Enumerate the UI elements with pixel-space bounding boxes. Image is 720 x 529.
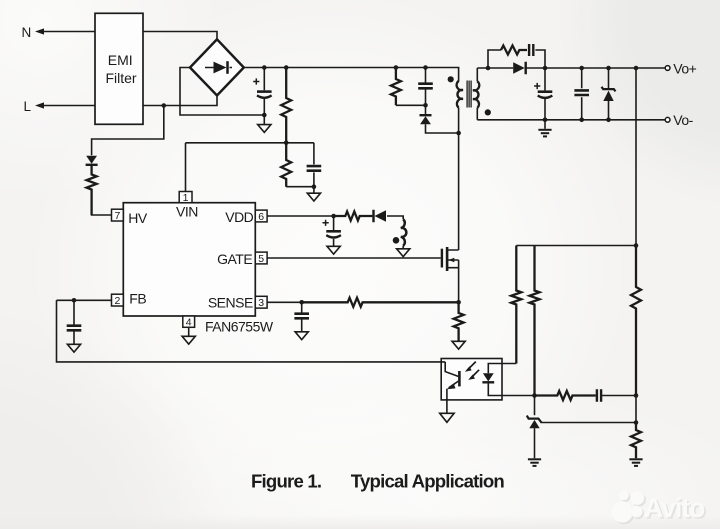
EMI filter block <box>95 13 143 124</box>
svg-text:Filter: Filter <box>105 70 136 86</box>
svg-text:HV: HV <box>128 210 148 226</box>
arrowhead N <box>35 28 44 34</box>
wire R8 to zener <box>534 396 536 416</box>
svg-text:FB: FB <box>129 291 146 307</box>
junction sense cap <box>299 300 304 305</box>
wire bulk cap bottom lead <box>263 99 265 125</box>
resistor R4 output snubber <box>501 46 527 55</box>
terminal Vo- <box>665 117 670 122</box>
capacitor C6 output filter <box>574 90 589 95</box>
wire sense cap bottom lead <box>301 319 303 332</box>
transformer T1 core <box>467 81 471 108</box>
ground below optocoupler <box>440 413 454 422</box>
wire output cap top lead <box>544 68 546 90</box>
junction VDD cap <box>331 214 336 219</box>
wire C2 top lead <box>313 143 315 165</box>
svg-text:4: 4 <box>186 316 192 328</box>
ground below R6 <box>629 458 642 460</box>
wire secondary top lead <box>476 68 478 81</box>
ground below R13 <box>452 341 465 349</box>
resistor R13 current sense <box>454 302 464 341</box>
junction output cap <box>543 66 548 71</box>
junction zener line to column <box>634 420 639 425</box>
svg-text:Figure 1.: Figure 1. <box>251 471 321 492</box>
pin 7 HV <box>112 209 124 221</box>
svg-text:Vo-: Vo- <box>673 112 693 128</box>
wire SENSE line <box>267 301 348 303</box>
resistor R12 sense series <box>302 298 459 307</box>
junction feedback divider <box>634 243 639 248</box>
wire L to EMI filter <box>43 105 95 107</box>
transformer T1 primary winding <box>457 81 463 108</box>
wire FB to optocoupler <box>57 300 446 362</box>
wire output snubber right leg <box>535 50 545 68</box>
wire zener top lead <box>608 68 610 88</box>
diode D2 clamp <box>420 116 431 124</box>
ground below auxiliary winding <box>397 249 410 257</box>
wire GATE line <box>267 257 441 259</box>
op-amp U1 FAN6755W body <box>123 203 255 316</box>
svg-text:L: L <box>24 99 32 114</box>
junction C6 bottom <box>579 118 584 123</box>
wire zener bottom lead <box>608 101 610 120</box>
wire FB cap bottom lead <box>73 331 75 345</box>
arrowhead L <box>35 102 44 108</box>
pin 5 GATE <box>255 252 267 264</box>
capacitor C3 clamp <box>418 84 433 89</box>
wire feedback column <box>635 68 637 246</box>
resistor R3 clamp <box>391 68 401 106</box>
ground below pin 4 <box>182 336 195 344</box>
wire VDD cap bottom lead <box>333 239 335 247</box>
wire output cap bottom lead <box>544 99 546 129</box>
optocoupler U2 body <box>441 359 502 400</box>
junction VIN node <box>284 141 289 146</box>
wire N to EMI filter <box>43 31 95 33</box>
wire MOSFET source <box>458 260 460 302</box>
capacitor C5 output bulk <box>538 90 553 93</box>
pin 4 GND <box>183 316 195 327</box>
junction C6 top <box>579 66 584 71</box>
wire FB cap top lead <box>73 300 75 325</box>
svg-text:5: 5 <box>258 253 264 265</box>
pin 2 FB <box>112 294 124 306</box>
svg-text:6: 6 <box>258 211 264 223</box>
resistor R11 VDD series <box>334 212 373 221</box>
svg-text:GATE: GATE <box>217 251 252 267</box>
svg-text:Avito: Avito <box>644 493 705 523</box>
svg-text:7: 7 <box>114 210 120 222</box>
bridge rectifier BR1 <box>190 39 244 95</box>
wire EMI to bridge top <box>143 32 217 41</box>
wire comp to column <box>602 395 636 397</box>
wire C2 bottom lead <box>313 172 315 186</box>
resistor R2 divider lower <box>281 143 291 187</box>
junction sense node <box>456 300 461 305</box>
svg-text:Vo+: Vo+ <box>673 60 696 76</box>
wire clamp C top lead <box>425 68 427 84</box>
junction FB cap <box>72 298 77 303</box>
pin 3 SENSE <box>255 296 267 308</box>
optocoupler U2 phototransistor <box>445 362 458 377</box>
junction ZD1 top <box>606 66 611 71</box>
wire feedback top link <box>516 245 636 247</box>
resistor R7 opto series <box>511 246 521 364</box>
junction snubber left <box>486 66 491 71</box>
capacitor C10 sense filter <box>294 314 309 319</box>
capacitor C2 VIN filter <box>307 166 322 171</box>
wire feedback column lower <box>635 396 637 423</box>
wire VIN to pin 1 <box>185 143 187 192</box>
transformer T1 secondary winding <box>473 81 479 108</box>
junction ZD1 bottom <box>606 118 611 123</box>
wire primary bottom lead <box>458 108 460 133</box>
polarity dot secondary <box>485 109 491 115</box>
wire secondary output line <box>477 67 513 69</box>
junction clamp diode <box>423 103 428 108</box>
ground below C10 <box>295 332 308 340</box>
optocoupler U2 light arrows <box>467 362 479 379</box>
wire C6 top lead <box>581 68 583 88</box>
wire HV tap <box>92 106 164 156</box>
junction feedback column top <box>634 66 639 71</box>
pin 1 VIN <box>179 192 192 203</box>
resistor R5 feedback column <box>631 246 641 396</box>
svg-text:EMI: EMI <box>108 52 133 68</box>
zener diode ZD2 reference <box>527 416 542 423</box>
zener diode ZD1 output clamp <box>602 87 616 92</box>
transistor Q1 MOSFET <box>441 249 443 268</box>
LED inside optocoupler U2 <box>483 373 494 381</box>
resistor R9 comp network <box>535 391 596 400</box>
wire zener ZD2 to column <box>541 422 637 424</box>
resistor R8 opto bias <box>530 246 540 396</box>
wire output snubber loop <box>488 50 501 68</box>
wire VDD line <box>267 215 345 217</box>
wire output line to Vo+ <box>526 67 666 69</box>
ground below C1 <box>258 125 271 133</box>
svg-text:2: 2 <box>114 295 120 307</box>
svg-text:Typical Application: Typical Application <box>351 471 505 492</box>
wire D4 to aux winding <box>387 216 403 219</box>
ground below C2 <box>307 193 320 201</box>
ground secondary below C5 <box>538 129 551 131</box>
svg-text:1: 1 <box>183 192 189 204</box>
wire divider ground link <box>286 187 314 194</box>
junction HV tap <box>162 103 167 108</box>
junction bulk cap bottom <box>262 113 267 118</box>
diode D1 startup <box>86 156 97 164</box>
resistor R10 startup <box>87 165 97 215</box>
wire opto LED anode <box>488 364 516 374</box>
wire to pin 7 <box>92 190 112 216</box>
diode D3 output rectifier <box>513 62 525 74</box>
wire bulk cap top lead <box>263 68 265 91</box>
wire Vo- line <box>477 119 665 121</box>
watermark logo <box>612 490 707 524</box>
wire VIN node <box>186 142 314 144</box>
transformer T1 auxiliary winding <box>401 219 407 245</box>
wire opto emitter <box>446 400 448 413</box>
resistor R6 to ground <box>631 423 641 459</box>
junction drain node <box>456 131 461 136</box>
junction divider ground <box>312 184 317 189</box>
wire clamp C bottom lead <box>425 89 427 105</box>
wire clamp bottom link <box>396 105 426 114</box>
pin 6 VDD <box>255 210 267 222</box>
junction C5 bottom <box>543 118 548 123</box>
wire sense cap top lead <box>301 302 303 313</box>
capacitor C4 output snubber <box>529 44 533 56</box>
polarity dot auxiliary <box>393 237 400 244</box>
junction snubber C top <box>423 65 428 70</box>
capacitor C1 bulk <box>257 90 272 93</box>
wire EMI to bridge bottom <box>143 95 217 106</box>
resistor R1 startup divider upper <box>281 68 291 143</box>
svg-text:SENSE: SENSE <box>208 294 253 310</box>
wire ZD2 anode <box>534 428 536 458</box>
svg-text:VIN: VIN <box>176 204 198 220</box>
ground below ZD2 <box>528 458 541 460</box>
wire C6 bottom lead <box>581 97 583 120</box>
wire aux winding to ground <box>402 246 404 249</box>
ground below C8 <box>67 344 80 352</box>
polarity dot primary <box>448 76 454 82</box>
wire MOSFET drain <box>458 133 460 250</box>
wire FB line <box>57 299 112 301</box>
junction snubber R top <box>394 65 399 70</box>
wire pin 4 ground lead <box>188 327 190 336</box>
capacitor C9 VDD <box>326 230 341 233</box>
svg-text:N: N <box>22 25 31 40</box>
junction divider top <box>284 65 289 70</box>
capacitor C8 FB filter <box>67 326 82 331</box>
wire bridge return <box>180 68 264 116</box>
svg-text:3: 3 <box>258 297 264 309</box>
junction RC to column <box>634 393 639 398</box>
wire clamp diode anode <box>426 124 459 133</box>
ground below C9 <box>327 246 340 254</box>
wire secondary bottom lead <box>476 108 478 120</box>
svg-text:VDD: VDD <box>225 209 253 225</box>
junction R8 bottom <box>532 393 537 398</box>
wire DC bus <box>244 68 459 82</box>
capacitor C7 comp network <box>597 389 601 401</box>
terminal Vo+ <box>665 66 670 71</box>
diode D4 VDD <box>375 210 387 222</box>
svg-text:FAN6755W: FAN6755W <box>205 319 274 335</box>
junction bulk cap top <box>262 65 267 70</box>
wire VDD cap top lead <box>333 216 335 230</box>
wire opto LED cathode <box>488 382 534 395</box>
